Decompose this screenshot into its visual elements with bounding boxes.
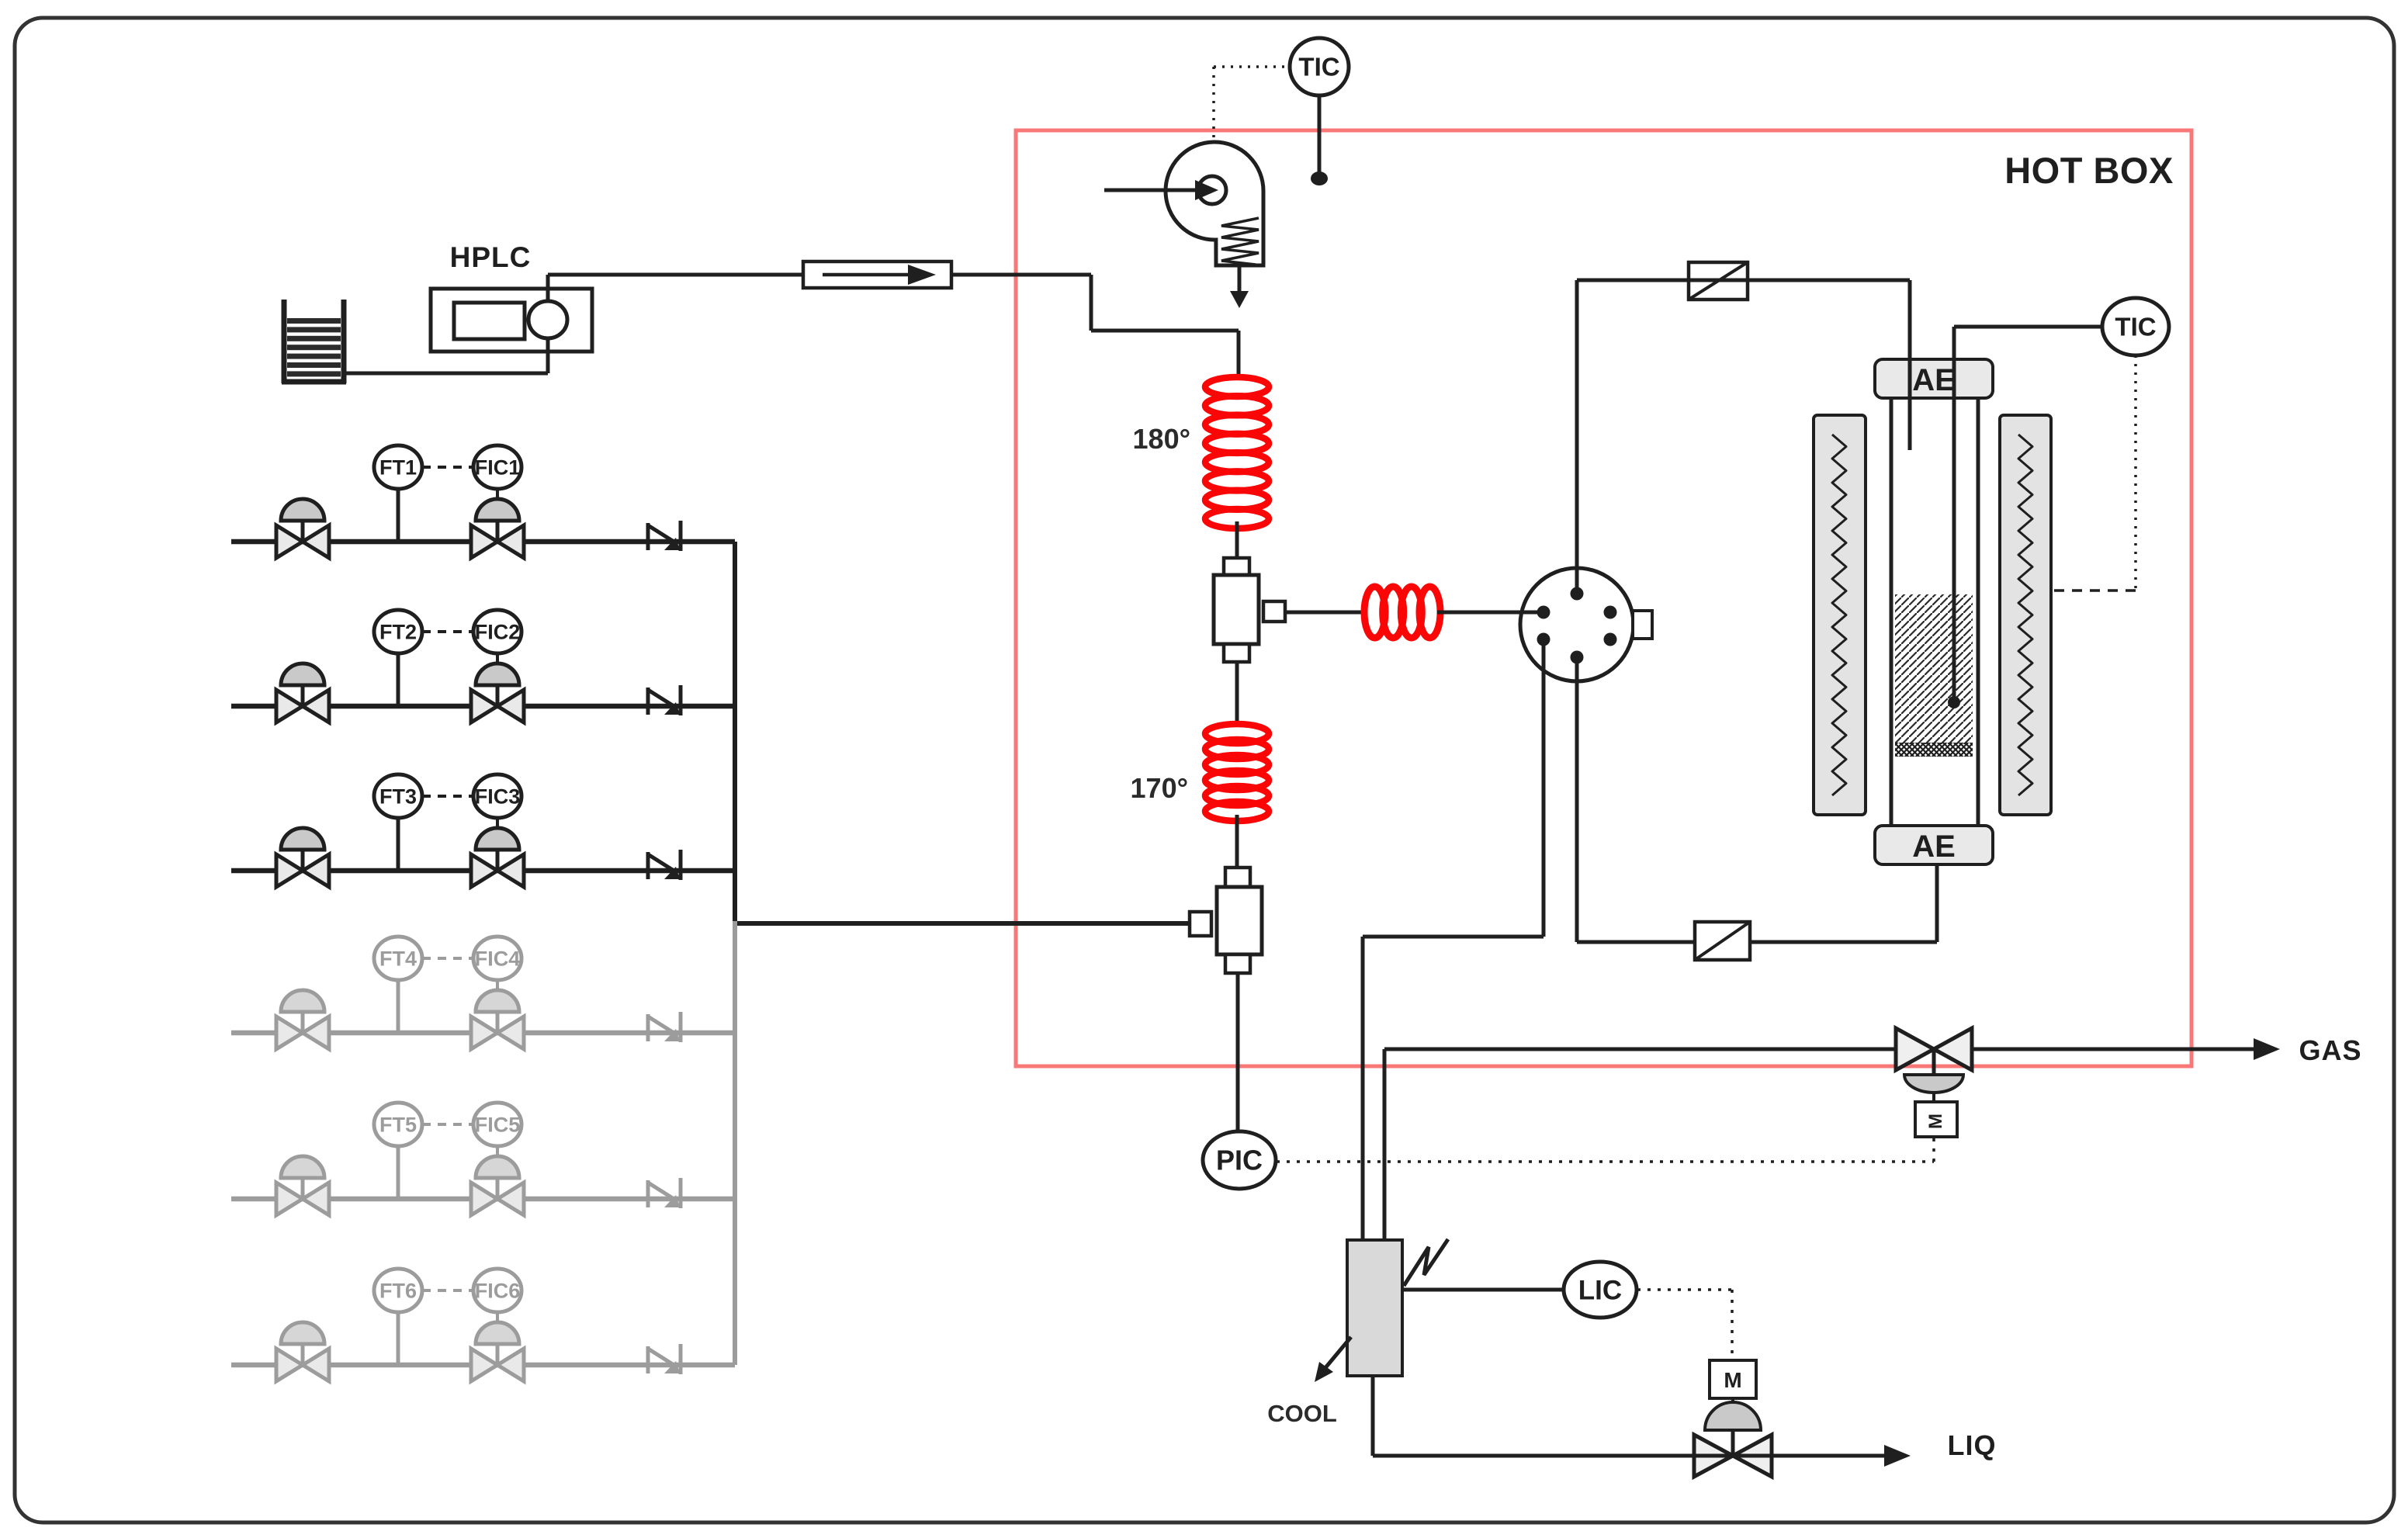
svg-text:LIC: LIC [1578, 1275, 1622, 1305]
svg-text:FT6: FT6 [379, 1279, 417, 1302]
svg-text:GAS: GAS [2299, 1034, 2361, 1066]
svg-text:M: M [1925, 1114, 1946, 1129]
svg-text:FIC2: FIC2 [475, 620, 521, 643]
svg-text:FT5: FT5 [379, 1113, 417, 1136]
svg-text:FIC6: FIC6 [475, 1279, 521, 1302]
svg-text:FT2: FT2 [379, 620, 417, 643]
svg-text:AE: AE [1912, 830, 1956, 864]
svg-text:TIC: TIC [2115, 313, 2156, 341]
svg-text:PIC: PIC [1216, 1145, 1263, 1176]
svg-text:FIC3: FIC3 [475, 785, 521, 808]
svg-text:TIC: TIC [1298, 53, 1339, 81]
svg-text:FIC1: FIC1 [475, 455, 521, 479]
svg-text:COOL: COOL [1267, 1400, 1337, 1427]
svg-text:M: M [1724, 1368, 1741, 1392]
svg-text:FIC4: FIC4 [475, 947, 521, 970]
svg-text:170°: 170° [1131, 772, 1188, 804]
svg-text:HPLC: HPLC [450, 241, 532, 273]
svg-text:FIC5: FIC5 [475, 1113, 521, 1136]
svg-text:180°: 180° [1133, 423, 1190, 455]
svg-text:FT1: FT1 [379, 455, 417, 479]
svg-text:HOT BOX: HOT BOX [2004, 150, 2174, 191]
svg-text:FT3: FT3 [379, 785, 417, 808]
svg-text:LIQ: LIQ [1948, 1429, 1997, 1461]
svg-text:FT4: FT4 [379, 947, 417, 970]
svg-text:AE: AE [1912, 363, 1956, 397]
